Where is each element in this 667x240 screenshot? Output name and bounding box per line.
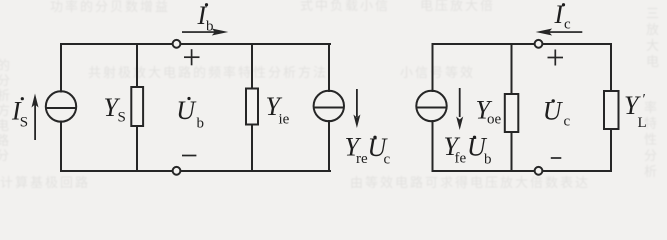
svg-text:S: S — [20, 115, 28, 131]
node b bottom — [173, 167, 181, 175]
node c bottom — [535, 167, 543, 175]
admittance Yoe — [505, 94, 519, 132]
wire: left circuit bottom rail — [61, 170, 330, 172]
current arrow Ib (right-pointing) — [182, 29, 228, 36]
wire: right ckt left rail upper — [432, 44, 434, 91]
wire: Yie branch lower — [251, 125, 253, 172]
wire: right circuit bottom rail — [433, 170, 612, 172]
wire: YS branch upper — [136, 44, 138, 87]
label YL' — [624, 91, 647, 131]
label Yre*Uc — [345, 133, 391, 168]
wire: left rail lower segment — [60, 122, 62, 172]
node c top — [535, 40, 543, 48]
wire: right ckt left rail lower — [432, 121, 434, 171]
svg-text:′: ′ — [643, 92, 646, 108]
svg-text:c: c — [564, 17, 571, 33]
svg-text:U: U — [176, 96, 197, 125]
label Yie — [266, 92, 290, 128]
minus sign (Uc) — [551, 157, 562, 159]
controlled current source Yre*Uc circle — [314, 91, 344, 121]
label YS — [104, 93, 126, 125]
svg-text:fe: fe — [455, 151, 467, 167]
wire: left circuit top rail — [61, 43, 330, 45]
svg-text:c: c — [384, 152, 391, 168]
wire: YL branch lower — [610, 129, 612, 171]
wire: left rail upper segment — [60, 44, 62, 92]
plus sign (Ub) — [184, 49, 200, 65]
arrow of controlled source Yre*Uc (down) — [353, 89, 360, 128]
node b top — [173, 40, 181, 48]
label Ic — [554, 0, 572, 33]
svg-text:ie: ie — [279, 112, 290, 128]
label IS — [11, 97, 28, 131]
label Ub (voltage) — [176, 96, 204, 132]
wire: Yoe branch lower — [511, 132, 513, 171]
current arrow Ic (left-pointing) — [536, 29, 583, 36]
svg-text:b: b — [206, 19, 214, 35]
svg-text:c: c — [564, 114, 571, 130]
svg-text:oe: oe — [487, 112, 502, 128]
svg-text:b: b — [197, 116, 205, 132]
wire: Yie branch upper — [251, 44, 253, 89]
wire: Yoe branch upper — [511, 44, 513, 94]
current source IS circle — [46, 91, 76, 121]
svg-text:S: S — [118, 110, 126, 126]
wire: YL branch upper — [610, 44, 612, 91]
faint page bleed-through texture — [50, 0, 170, 15]
label Yoe — [476, 96, 502, 128]
admittance Yie — [246, 89, 258, 125]
label Yfe*Ub — [444, 132, 492, 168]
svg-text:re: re — [356, 151, 368, 167]
admittance YS — [131, 87, 143, 126]
minus sign (Ub) — [182, 155, 196, 157]
wire: controlled source branch upper (left ckt) — [328, 44, 330, 91]
controlled current source Yfe*Ub circle — [416, 91, 446, 121]
plus sign (Uc) — [548, 50, 564, 66]
wire: YS branch lower — [136, 126, 138, 171]
label Ib — [197, 1, 214, 35]
svg-text:b: b — [484, 152, 492, 168]
svg-text:L: L — [638, 115, 647, 131]
admittance YL' — [604, 91, 619, 129]
wire: right circuit top rail — [433, 43, 612, 45]
current arrow IS (up-pointing, source) — [32, 94, 39, 141]
wire: controlled source branch lower (left ckt) — [328, 121, 330, 171]
arrow of controlled source Yfe*Ub (down) — [456, 88, 463, 130]
label Uc (voltage) — [543, 97, 571, 130]
